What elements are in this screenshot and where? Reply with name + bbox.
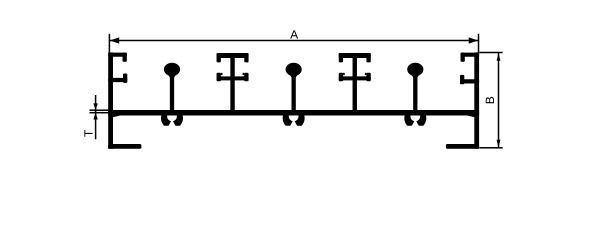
profile right bottom foot bbox=[446, 144, 479, 149]
extension line right of dimension A bbox=[478, 34, 480, 53]
extension line bottom right of dimension B bbox=[479, 147, 502, 149]
snap clip 1 below web bbox=[161, 107, 183, 129]
arrowhead T upper bbox=[93, 103, 97, 110]
arrowhead B top bbox=[497, 53, 501, 61]
extension line T web top bbox=[90, 109, 113, 111]
web-wall fillet left bbox=[113, 115, 121, 117]
ball stud 3 stem and ball bbox=[407, 63, 423, 112]
profile left wall bbox=[108, 52, 113, 148]
ball stud 2 stem and ball bbox=[286, 63, 302, 112]
arrowhead B bottom bbox=[497, 140, 501, 148]
right channel middle arm with up tip bbox=[460, 75, 479, 84]
arrowhead A left bbox=[110, 37, 120, 43]
arrowhead T lower bbox=[93, 113, 97, 120]
extension line T web bottom bbox=[90, 112, 113, 114]
snap clip 2 below web bbox=[283, 107, 305, 129]
extension line top right of dimension B bbox=[479, 52, 502, 54]
web-wall fillet right bbox=[466, 115, 474, 117]
dimension line A bbox=[110, 40, 478, 42]
left channel middle arm with up tip bbox=[108, 74, 127, 83]
dimension line T bbox=[95, 95, 97, 139]
left channel top arm with down tip bbox=[108, 53, 127, 62]
snap clip 3 below web bbox=[404, 107, 426, 129]
double-T fin 2 bbox=[339, 53, 371, 112]
double-T fin 1 bbox=[217, 53, 249, 112]
label T bbox=[84, 130, 92, 137]
profile right wall bbox=[474, 52, 479, 148]
ball stud 1 stem and ball bbox=[164, 63, 180, 112]
profile left bottom foot bbox=[108, 144, 141, 149]
label B bbox=[486, 97, 494, 103]
profile main web bbox=[108, 110, 479, 116]
dimension line B bbox=[498, 53, 500, 148]
right channel top arm with down tip bbox=[461, 53, 480, 62]
arrowhead A right bbox=[469, 37, 479, 43]
label A bbox=[290, 30, 298, 38]
extension line left of dimension A bbox=[109, 34, 111, 53]
